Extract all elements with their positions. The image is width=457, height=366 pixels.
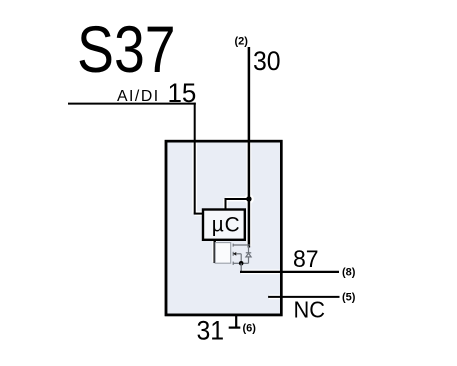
gate drive wire from µC (vertical): [213, 240, 215, 263]
svg-text:31: 31: [197, 317, 225, 346]
wire: source junction down to 87 rail: [240, 263, 242, 272]
node: source junction: [239, 261, 244, 266]
svg-text:(5): (5): [342, 291, 356, 303]
module box border (redrawn over halos): [166, 141, 281, 315]
svg-text:S37: S37: [77, 12, 176, 86]
svg-text:(8): (8): [342, 267, 356, 279]
microcontroller µC: [203, 210, 245, 240]
terminal 87 wire (horizontal): [240, 271, 339, 273]
transistor Q1 body arrow (points to channel): [233, 252, 241, 263]
body diode D1 (source to drain): [246, 246, 251, 263]
wire: junction to µC top (vertical): [225, 198, 227, 211]
terminal 31 / ground stub (vertical): [235, 315, 237, 329]
svg-text:30: 30: [253, 47, 281, 76]
node halo: [244, 194, 254, 204]
svg-text:µC: µC: [212, 213, 241, 236]
svg-text:(6): (6): [243, 323, 257, 335]
svg-text:87: 87: [293, 246, 319, 273]
terminal 15 lead wire (horizontal): [68, 103, 196, 105]
transistor Q1 drain stub: [233, 244, 250, 246]
svg-text:NC: NC: [294, 296, 326, 323]
wire halos (white casing over module fill): [195, 143, 280, 297]
transistor Q1 source stub: [233, 262, 248, 264]
svg-text:(2): (2): [235, 36, 249, 48]
terminal 15 wire: vertical drop into module: [194, 103, 196, 214]
terminal NC stub wire: [268, 296, 339, 298]
module box S37 (relay housing): [166, 141, 281, 315]
svg-text:15: 15: [167, 78, 196, 108]
transistor Q1 driver body (light rect, right edge = gate bar): [215, 243, 231, 264]
transistor Q1 channel bars: [232, 244, 234, 265]
node: junction of 30 rail and µC supply: [246, 196, 251, 201]
wire: 15 input to µC left pin: [194, 213, 204, 215]
wire: junction to µC top (horizontal): [226, 198, 249, 200]
svg-text:AI/DI: AI/DI: [117, 88, 160, 105]
ground symbol bar: [229, 327, 241, 329]
terminal 30 wire: vertical: [248, 47, 251, 248]
